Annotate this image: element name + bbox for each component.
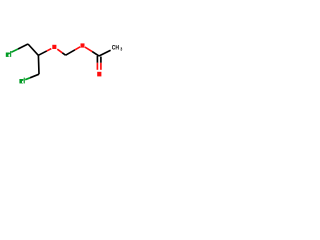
wire: bond C5-CH3 — [99, 50, 111, 56]
wire: bond Cl1-C1 black half — [18, 44, 28, 49]
node O1 label — [52, 45, 56, 49]
wire: bond C2-C3 — [37, 55, 40, 74]
wire: bond O2-C5 black half — [92, 52, 99, 56]
wire: bond C3-Cl2 black half — [30, 74, 39, 78]
wire: bond Cl1-C1 green half — [11, 49, 18, 52]
wire: bond C3-Cl2 green half — [25, 78, 30, 80]
node Cl2 label — [19, 78, 24, 84]
wire: bond O2-C5 red half — [85, 47, 92, 52]
background — [0, 0, 130, 130]
wire: bond C1-C2 — [28, 44, 38, 55]
node CH3 label — [112, 45, 123, 52]
node O2 label — [81, 43, 85, 47]
wire: bond C4-O2 black half — [66, 50, 75, 55]
wire: double bond C5=O3 right line red half — [100, 63, 102, 70]
wire: bond C2-O1 red half — [47, 49, 52, 51]
wire: bond O1-C4 black half — [62, 53, 65, 55]
node Cl1 label — [6, 51, 11, 57]
wire: double bond C5=O3 right line black half — [100, 57, 102, 63]
svg-text:CH: CH — [112, 45, 119, 52]
wire: bond O1-C4 red half — [57, 49, 62, 53]
wire: bond C4-O2 red half — [75, 47, 80, 50]
wire: double bond C5=O3 left line black half — [96, 56, 98, 63]
wire: double bond C5=O3 left line red half — [96, 63, 98, 70]
wire: bond C2-O1 black half — [38, 51, 47, 55]
node O3 label — [97, 72, 101, 77]
